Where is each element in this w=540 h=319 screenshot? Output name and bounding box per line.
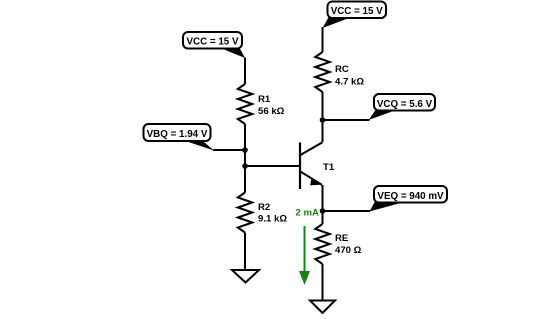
svg-text:VCQ = 5.6 V: VCQ = 5.6 V [377, 99, 433, 110]
svg-text:VBQ = 1.94 V: VBQ = 1.94 V [147, 129, 208, 140]
svg-text:56 kΩ: 56 kΩ [258, 106, 285, 117]
svg-text:VEQ = 940 mV: VEQ = 940 mV [377, 191, 444, 202]
svg-text:RE: RE [335, 233, 349, 244]
svg-text:VCC = 15 V: VCC = 15 V [331, 6, 383, 17]
svg-text:RC: RC [335, 64, 349, 75]
svg-text:470 Ω: 470 Ω [335, 245, 362, 256]
svg-text:T1: T1 [323, 162, 335, 173]
svg-text:R2: R2 [258, 202, 270, 213]
svg-text:4.7 kΩ: 4.7 kΩ [335, 77, 364, 88]
svg-text:R1: R1 [258, 94, 271, 105]
svg-text:9.1 kΩ: 9.1 kΩ [258, 214, 287, 225]
svg-text:VCC = 15 V: VCC = 15 V [186, 37, 238, 48]
svg-text:2 mA: 2 mA [296, 208, 320, 219]
